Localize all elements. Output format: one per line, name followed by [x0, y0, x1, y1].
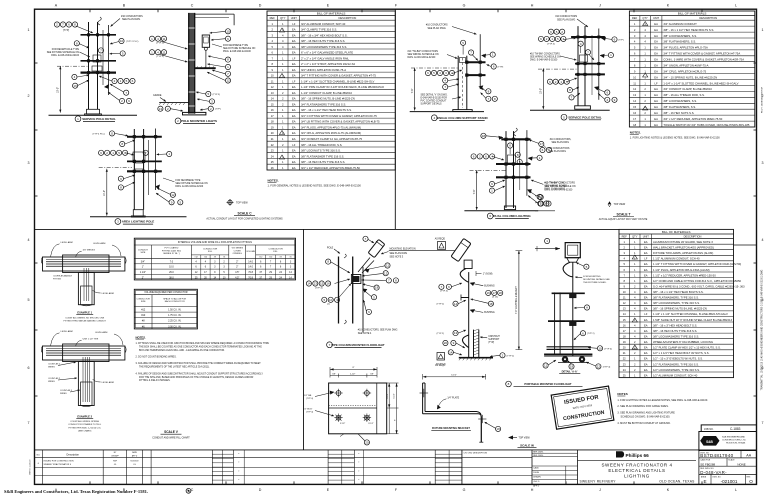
svg-text:LEVEL ARM: LEVEL ARM	[61, 241, 73, 244]
svg-text:1 1/2": 1 1/2"	[140, 271, 146, 274]
svg-text:3/8" - 16 ALL THREAD ROD, S.S.: 3/8" - 16 ALL THREAD ROD, S.S.	[663, 93, 705, 97]
svg-text:S&B: S&B	[706, 440, 713, 444]
svg-text:1: 1	[762, 28, 764, 32]
svg-text:OLD OCEAN, TEXAS: OLD OCEAN, TEXAS	[659, 479, 695, 483]
svg-text:3/8" - 16 x 1 1/2" HEX HEAD BO: 3/8" - 16 x 1 1/2" HEX HEAD BOLTS S.S.	[663, 28, 714, 32]
svg-text:1/2" MB: 1/2" MB	[304, 395, 312, 397]
svg-text:EA: EA	[644, 246, 648, 250]
example 1 caption	[64, 311, 107, 323]
svg-text:#12: #12	[141, 309, 146, 312]
svg-text:16: 16	[326, 282, 330, 286]
svg-text:ACTUAL CONDUIT LAYOUT FOR COMP: ACTUAL CONDUIT LAYOUT FOR COMPLETED LIGH…	[206, 218, 283, 221]
svg-text:11: 11	[623, 296, 626, 300]
svg-text:#10 'TW-BW' CONDUCTORS: #10 'TW-BW' CONDUCTORS	[530, 53, 560, 55]
svg-text:3/8" FLATWASHERS, TYPE 316 S.S: 3/8" FLATWASHERS, TYPE 316 S.S.	[653, 296, 699, 300]
svg-text:4.5": 4.5"	[235, 276, 239, 279]
svg-text:3/4" - 10 SPRING NUTS, B-LINE: 3/4" - 10 SPRING NUTS, B-LINE #N225-ZN	[663, 75, 717, 79]
svg-text:1 1/2" PLUG, APPLETON #PLG-150: 1 1/2" PLUG, APPLETON #PLG-150A (ALUM)	[653, 268, 710, 272]
svg-text:PLOT: 10/28/2019 BY RSF: PLOT: 10/28/2019 BY RSF	[762, 86, 764, 113]
svg-text:ACTUAL EQUIP. LAYOUT MAY VARY: ACTUAL EQUIP. LAYOUT MAY VARY ON SITE	[599, 218, 648, 221]
svg-text:*: *	[238, 471, 239, 474]
svg-text:15: 15	[271, 102, 274, 106]
svg-text:ALUMINUM FIXTURE W/ GUARD, SEE: ALUMINUM FIXTURE W/ GUARD, SEE NOTE 3	[653, 240, 713, 244]
svg-text:(TYP 4 PLC): (TYP 4 PLC)	[93, 134, 106, 136]
svg-text:11: 11	[162, 50, 165, 54]
detail 7 pole column mounted floodlight	[306, 236, 455, 335]
bill of materials table (center)	[267, 11, 395, 170]
svg-text:SIZE: SIZE	[141, 301, 146, 303]
svg-text:SUPPORT DETAILS: SUPPORT DETAILS	[421, 103, 443, 106]
svg-text:DESCRIPTION: DESCRIPTION	[339, 16, 357, 20]
svg-text:13: 13	[623, 307, 626, 311]
svg-text:#6: #6	[289, 257, 291, 259]
svg-text:3/4" PLUGS, APPLETON #PLG-75 (: 3/4" PLUGS, APPLETON #PLG-75 (ALUMINUM)	[301, 126, 361, 130]
svg-text:OPENING: OPENING	[233, 253, 243, 255]
svg-text:3/8" - 16 x 1-1/2" HEX HEAD BO: 3/8" - 16 x 1-1/2" HEX HEAD BOLTS S.S.	[301, 108, 352, 112]
svg-text:EA: EA	[654, 105, 658, 109]
svg-text:CHK APP: CHK APP	[111, 455, 120, 458]
svg-text:COVER AT A ANGLE: COVER AT A ANGLE	[53, 275, 72, 278]
svg-text:20: 20	[271, 131, 274, 135]
svg-text:11: 11	[271, 79, 274, 83]
svg-text:APP D: APP D	[533, 485, 540, 488]
svg-text:3/4" x 1/2" REDUCER, APPLETON: 3/4" x 1/2" REDUCER, APPLETON #RED-75-50	[301, 166, 360, 170]
svg-text:REF. DWG.: REF. DWG.	[533, 452, 544, 454]
svg-text:10.0: 10.0	[169, 266, 174, 269]
svg-text:EA: EA	[654, 64, 658, 68]
svg-text:(TYP): (TYP)	[488, 342, 494, 344]
svg-text:THE FIXTURE SCHED.: THE FIXTURE SCHED.	[583, 282, 607, 284]
svg-text:COUNT AS 3: COUNT AS 3	[60, 389, 73, 392]
svg-text:3/4" CONDUIT CLAMP 12 GA, APPL: 3/4" CONDUIT CLAMP 12 GA, APPLETON #H-75	[301, 137, 363, 141]
svg-text:2.25 CU. IN.: 2.25 CU. IN.	[168, 320, 181, 323]
svg-text:EA: EA	[292, 85, 296, 89]
svg-text:(TYP 2): (TYP 2)	[156, 56, 164, 58]
svg-text:EA: EA	[292, 160, 296, 164]
svg-text:EA: EA	[292, 74, 296, 78]
svg-text:25: 25	[271, 160, 274, 164]
svg-text:14: 14	[449, 350, 453, 354]
svg-text:AREA LIGHTING POLE: AREA LIGHTING POLE	[122, 220, 155, 224]
svg-text:29.0: 29.0	[169, 271, 174, 274]
revision delta triangles in center BOM table	[279, 28, 284, 159]
svg-text:GRADE: GRADE	[153, 94, 162, 97]
svg-text:11: 11	[162, 37, 165, 41]
svg-text:(2): (2)	[327, 304, 330, 306]
svg-text:(TYP): (TYP)	[498, 67, 504, 69]
svg-text:SCALE W: SCALE W	[520, 443, 534, 447]
svg-text:LEVEL ARM: LEVEL ARM	[61, 330, 73, 333]
svg-text:17: 17	[493, 291, 497, 295]
svg-text:10: 10	[226, 29, 230, 33]
svg-text:7'-6": 7'-6"	[473, 189, 476, 194]
svg-text:3/4" CLAMPS TYPE 316 S.S.: 3/4" CLAMPS TYPE 316 S.S.	[301, 28, 337, 32]
svg-text:DWG. E-048-VAR-E-02100: DWG. E-048-VAR-E-02100	[545, 188, 574, 191]
svg-text:17: 17	[633, 117, 636, 121]
svg-text:EA: EA	[644, 273, 648, 277]
svg-text:1: 1	[28, 28, 30, 32]
svg-text:WALL BRACKET, APPLETON #GS (AP: WALL BRACKET, APPLETON #GS (APPROVED)	[653, 246, 714, 250]
detail 1 title	[75, 116, 116, 122]
revision delta triangles in bottom right BOM table	[632, 255, 637, 349]
svg-text:3/8" - 16 x 1 1/2" HEX HEAD BO: 3/8" - 16 x 1 1/2" HEX HEAD BOLTS S.S.	[653, 290, 704, 294]
svg-text:REF: REF	[270, 16, 276, 20]
right margin plot stamp text	[761, 86, 764, 390]
svg-text:1. FOR LIGHTING NOTES & LEGEN: 1. FOR LIGHTING NOTES & LEGEND NOTES, SE…	[617, 399, 708, 402]
svg-text:FOR NEOPRENE TYPE: FOR NEOPRENE TYPE	[223, 45, 248, 47]
svg-text:D-048-VAR-: D-048-VAR-	[700, 470, 727, 475]
svg-text:(TYP 4): (TYP 4)	[306, 398, 313, 400]
svg-text:SCALE T: SCALE T	[616, 212, 630, 216]
top view symbol and scale E title (below detail 2)	[206, 199, 283, 221]
svg-text:TOP VIEW: TOP VIEW	[236, 201, 248, 204]
svg-text:CONDUIT AND WIRE FILL CHART: CONDUIT AND WIRE FILL CHART	[152, 437, 190, 440]
svg-text:EA: EA	[654, 28, 658, 32]
svg-text:18: 18	[482, 134, 486, 138]
svg-text:J: J	[599, 488, 601, 492]
detail 9 left caption	[506, 381, 583, 387]
svg-text:1-1/4" x 1-1/4" SLOTTED CHANNE: 1-1/4" x 1-1/4" SLOTTED CHANNEL, B-LINE …	[663, 81, 738, 85]
svg-text:EA: EA	[292, 45, 296, 49]
svg-text:E-048-VAR-E-02100 FOR: E-048-VAR-E-02100 FOR	[421, 97, 448, 100]
svg-text:E: E	[703, 479, 706, 484]
svg-text:DWG. E-048-VAR-E-02100: DWG. E-048-VAR-E-02100	[223, 50, 252, 53]
svg-text:CONDUCTOR: CONDUCTOR	[269, 248, 284, 250]
svg-text:24: 24	[623, 368, 626, 372]
svg-text:10: 10	[623, 290, 626, 294]
svg-text:7'-6": 7'-6"	[411, 88, 414, 93]
svg-text:CADD FILE: CADD FILE	[700, 459, 711, 462]
svg-text:3/4": 3/4"	[141, 260, 145, 263]
svg-text:L: L	[735, 488, 737, 492]
svg-text:18: 18	[633, 123, 636, 127]
detail 4 title	[431, 115, 488, 121]
svg-text:COUNT AS 4 WIRES. NO SPLICES.: COUNT AS 4 WIRES. NO SPLICES. ONE	[65, 316, 105, 319]
svg-text:2: 2	[28, 94, 30, 98]
svg-text:EA: EA	[644, 262, 648, 266]
svg-text:(TYP 2 PLC): (TYP 2 PLC)	[126, 41, 139, 43]
svg-text:SEE PLAN DWG: SEE PLAN DWG	[390, 252, 408, 255]
svg-text:BILL OF MATERIALS: BILL OF MATERIALS	[317, 12, 346, 16]
svg-text:D: D	[259, 488, 262, 492]
svg-text:CONDUCTOR: CONDUCTOR	[136, 299, 150, 301]
svg-text:8": 8"	[353, 367, 355, 369]
svg-text:#12: #12	[195, 257, 198, 259]
svg-text:BUSHING: BUSHING	[484, 285, 495, 287]
svg-text:#8: #8	[214, 257, 216, 259]
example 2 caption	[68, 415, 102, 433]
svg-text:FITTING (CAT. NO): FITTING (CAT. NO)	[162, 249, 181, 252]
fixture mounting bracket caption	[431, 422, 500, 432]
svg-text:(TYP 2): (TYP 2)	[437, 304, 445, 306]
svg-text:3/4" x 1/2" REDUCER, APPLETON: 3/4" x 1/2" REDUCER, APPLETON #RED-75-50	[663, 117, 722, 121]
svg-text:*: *	[358, 462, 359, 465]
svg-text:WIRES: WIRES	[60, 393, 67, 395]
svg-text:BS7D4817940: BS7D4817940	[700, 453, 733, 458]
svg-text:EA: EA	[654, 40, 658, 44]
svg-text:C: C	[191, 4, 194, 8]
svg-text:COVER: COVER	[234, 250, 242, 252]
svg-text:16: 16	[73, 84, 77, 88]
svg-text:1": 1"	[142, 266, 144, 269]
svg-text:(TYP 2): (TYP 2)	[507, 355, 515, 357]
svg-text:EA: EA	[644, 329, 648, 333]
detail 9 title	[559, 369, 580, 373]
svg-text:POLE MOUNTED LIGHTS: POLE MOUNTED LIGHTS	[181, 119, 217, 123]
svg-text:EA: EA	[292, 68, 296, 72]
svg-text:1. FOR LIGHTING NOTES & LEGEN: 1. FOR LIGHTING NOTES & LEGEND NOTES, SE…	[630, 137, 720, 140]
svg-text:SWEENY REFINERY: SWEENY REFINERY	[580, 479, 617, 483]
svg-text:3/8" - 16 SPRING NUTS B-LINE,: 3/8" - 16 SPRING NUTS B-LINE, #N225-ZN	[653, 307, 707, 311]
svg-text:LF: LF	[644, 257, 647, 261]
svg-text:14: 14	[271, 97, 274, 101]
svg-text:3/4" PLUGS, APPLETON #PLG-75A: 3/4" PLUGS, APPLETON #PLG-75A	[663, 46, 708, 50]
svg-text:16: 16	[487, 291, 491, 295]
svg-text:EA: EA	[292, 97, 296, 101]
svg-text:FOR THE SITE AND, BASED AND PR: FOR THE SITE AND, BASED AND PRINCIPLES O…	[139, 376, 254, 379]
svg-text:G: G	[463, 4, 466, 8]
svg-text:SEE WIRING SCHEDULE ON: SEE WIRING SCHEDULE ON	[545, 186, 576, 188]
svg-text:15: 15	[623, 318, 626, 322]
svg-text:EA: EA	[292, 28, 296, 32]
svg-text:3/4" LB FITTING WITH COVER & G: 3/4" LB FITTING WITH COVER & GASKET, APP…	[301, 120, 380, 124]
svg-text:1/2" LOCKWASHERS, TYPE 316 S.S: 1/2" LOCKWASHERS, TYPE 316 S.S.	[653, 368, 700, 372]
svg-text:3/4" FLATWASHERS TYPE 316 S.S.: 3/4" FLATWASHERS TYPE 316 S.S.	[301, 102, 346, 106]
svg-text:TOP VIEW: TOP VIEW	[519, 438, 531, 440]
svg-text:AS REQD: AS REQD	[435, 238, 446, 241]
svg-text:REF. DWG.: REF. DWG.	[533, 455, 544, 457]
title block chk'd approval cell	[462, 450, 532, 485]
svg-text:(TYP 2): (TYP 2)	[437, 333, 445, 335]
detail 8 pedestal floodlight with dimension	[435, 238, 523, 366]
svg-text:EA: EA	[292, 91, 296, 95]
svg-text:12: 12	[171, 193, 175, 197]
svg-text:REV 0: 11-04-19: REV 0: 11-04-19	[30, 459, 32, 475]
svg-text:7: 7	[762, 421, 764, 425]
detail 2 pole mounted lights (top middle-left)	[149, 13, 255, 115]
svg-text:EA: EA	[654, 58, 658, 62]
svg-text:DETAIL 'A-A': DETAIL 'A-A'	[562, 369, 578, 373]
svg-text:18: 18	[496, 427, 500, 431]
svg-text:-021001: -021001	[721, 479, 738, 484]
svg-text:EA: EA	[644, 290, 648, 294]
svg-text:DESCRIPTION: DESCRIPTION	[699, 16, 717, 20]
svg-text:9-1/2": 9-1/2"	[393, 393, 395, 399]
svg-text:10'-0": 10'-0"	[57, 87, 60, 93]
svg-text:3: 3	[762, 161, 764, 165]
svg-text:(TYP 4): (TYP 4)	[603, 366, 611, 368]
border row numbers right	[762, 28, 764, 425]
svg-text:S&B ENGINEERS AND: S&B ENGINEERS AND	[722, 436, 745, 439]
svg-text:1/2" BOLT: 1/2" BOLT	[303, 409, 313, 411]
svg-text:4. MUST BE BOTTOM CONDUIT AT: 4. MUST BE BOTTOM CONDUIT AT GROUND.	[617, 422, 671, 425]
svg-text:24: 24	[271, 154, 274, 158]
vertical zone divider line x=303	[303, 229, 305, 450]
svg-text:TRANSMITTAL: 10/28/2019 10:42: TRANSMITTAL: 10/28/2019 10:42 AM S+B ENG…	[761, 269, 764, 390]
svg-text:EA: EA	[644, 284, 648, 288]
svg-text:22: 22	[271, 143, 274, 147]
svg-text:EA: EA	[292, 120, 296, 124]
svg-text:NOTES.: NOTES.	[268, 179, 279, 183]
svg-text:3/4" UNION, APPLETON #UNF-75-A: 3/4" UNION, APPLETON #UNF-75-A	[301, 68, 346, 72]
svg-text:3/8" LOCKWASHERS, S.S.: 3/8" LOCKWASHERS, S.S.	[663, 99, 697, 103]
svg-text:LF: LF	[644, 312, 647, 316]
svg-text:4. FAILURE OF DESIGN AND SUB: 4. FAILURE OF DESIGN AND SUBCONTRACTOR S…	[136, 372, 264, 375]
svg-text:5/8": 5/8"	[332, 374, 336, 376]
svg-text:8": 8"	[395, 419, 397, 421]
svg-text:DWG. E-048-VAR-E-02100: DWG. E-048-VAR-E-02100	[175, 185, 204, 188]
svg-text:LF: LF	[292, 79, 295, 83]
svg-text:16: 16	[271, 108, 274, 112]
svg-text:*: *	[358, 471, 359, 474]
svg-text:3/4" T FITTING WITH COVER & GA: 3/4" T FITTING WITH COVER & GASKET, APPL…	[663, 52, 740, 56]
bill of materials table (top right)	[629, 11, 754, 127]
svg-text:19: 19	[623, 340, 626, 344]
svg-text:70.8: 70.8	[248, 276, 253, 279]
svg-text:3/8" - 16 HEX NUTS TYPE 316 S.: 3/8" - 16 HEX NUTS TYPE 316 S.S.	[653, 329, 697, 333]
svg-text:2": 2"	[236, 266, 238, 269]
svg-text:CHK D: CHK D	[533, 481, 540, 483]
svg-text:QTY: QTY	[642, 16, 648, 20]
svg-text:EA: EA	[644, 373, 648, 377]
detail 7 title	[327, 342, 385, 348]
svg-text:DSGN: DSGN	[533, 472, 539, 474]
svg-text:2. SEE PLAN DRAWING FOR CABLE: 2. SEE PLAN DRAWING FOR CABLE SIZES.	[617, 405, 668, 408]
svg-text:LF: LF	[292, 22, 295, 26]
bill of materials table (bottom right)	[619, 229, 745, 377]
svg-text:EA: EA	[644, 323, 648, 327]
svg-text:FOR RECEPTACLE TYPE: FOR RECEPTACLE TYPE	[52, 48, 80, 51]
svg-text:2-1/2": 2-1/2"	[350, 374, 356, 376]
svg-text:13: 13	[271, 91, 274, 95]
svg-text:#10 CONDUCTORS,: #10 CONDUCTORS,	[550, 139, 572, 141]
notes under center BOM table	[268, 179, 362, 188]
svg-text:MOUNTING ELEVATION: MOUNTING ELEVATION	[390, 247, 416, 250]
svg-text:11: 11	[386, 264, 389, 268]
svg-text:*: *	[238, 479, 239, 482]
svg-text:11: 11	[544, 364, 547, 368]
svg-text:SINGLE COLUMN SUPPORT STAND: SINGLE COLUMN SUPPORT STAND	[436, 116, 488, 120]
svg-text:SCALE: SCALE	[728, 459, 735, 462]
svg-text:20: 20	[365, 441, 369, 445]
svg-text:1 5/8" SLIDE NUT W/ 3" ROUND S: 1 5/8" SLIDE NUT W/ 3" ROUND STEEL CLEAT…	[653, 318, 733, 322]
svg-text:PORTABLE MOUNTED FLOODLIGHT: PORTABLE MOUNTED FLOODLIGHT	[524, 382, 571, 386]
svg-text:2": 2"	[142, 276, 144, 279]
svg-text:EA: EA	[292, 126, 296, 130]
svg-text:EA: EA	[644, 351, 648, 355]
detail 6 channel lighting stand (top, col H)	[530, 15, 624, 110]
svg-text:SERVICE POLE DETAIL: SERVICE POLE DETAIL	[82, 117, 116, 121]
svg-text:18: 18	[271, 120, 274, 124]
svg-text:BOX AND TERMINATED AGAIN WILL: BOX AND TERMINATED AGAIN WILL ADD - A EX…	[139, 349, 225, 352]
svg-text:NONE: NONE	[737, 462, 745, 466]
svg-text:1-1/2" CONDUIT CLAMP, B-LINE #: 1-1/2" CONDUIT CLAMP, B-LINE #B2010	[301, 91, 352, 95]
svg-text:SEE PLAN DWG: SEE PLAN DWG	[428, 27, 446, 30]
svg-text:FITTING PER SIZE, 2-#12/14 COL: FITTING PER SIZE, 2-#12/14 COL	[69, 427, 102, 429]
svg-text:H: H	[531, 488, 534, 492]
svg-text:SEE WIRING SCHEDULE ON: SEE WIRING SCHEDULE ON	[408, 54, 439, 56]
svg-text:3/8" LOCKWASHERS TYPE 316 S.S.: 3/8" LOCKWASHERS TYPE 316 S.S.	[301, 45, 347, 49]
svg-text:70.8: 70.8	[248, 271, 253, 274]
svg-text:10: 10	[271, 74, 274, 78]
svg-text:#10: #10	[141, 314, 146, 317]
svg-text:D: D	[259, 4, 262, 8]
svg-text:THE BOX SHALL BE COUNTED AS ON: THE BOX SHALL BE COUNTED AS ONE CONDUCTO…	[139, 346, 262, 349]
svg-text:SWEENY FRACTIONATOR 4: SWEENY FRACTIONATOR 4	[44, 463, 72, 466]
svg-text:LEVEL ARM: LEVEL ARM	[93, 242, 105, 245]
svg-text:CH. ORD DESCRIPTION: CH. ORD DESCRIPTION	[464, 453, 488, 455]
svg-text:FITTING THRU WAY AS GANGED CON: FITTING THRU WAY AS GANGED CONDUIT	[64, 320, 107, 323]
svg-text:13: 13	[159, 107, 163, 111]
svg-text:EXAMPLE 1: EXAMPLE 1	[77, 311, 92, 315]
svg-text:*: *	[358, 479, 359, 482]
svg-text:R 1/2": R 1/2"	[368, 423, 374, 425]
horizontal zone divider line	[35, 228, 620, 230]
svg-text:VOLUME: VOLUME	[246, 251, 255, 253]
svg-text:FIXTURE TWO-ARMS, APPLETON #GS: FIXTURE TWO-ARMS, APPLETON #GS (ALUM)	[653, 251, 713, 255]
svg-text:Description: Description	[67, 453, 80, 456]
svg-text:LIGHTING: LIGHTING	[624, 473, 650, 478]
svg-text:10: 10	[598, 346, 602, 350]
svg-text:DWG. E-048-VAR-E-02100: DWG. E-048-VAR-E-02100	[51, 54, 80, 57]
svg-text:COUNT AS 2: COUNT AS 2	[48, 377, 61, 380]
svg-text:WHEELS/CASTERS 6" DIA RUBBER,: WHEELS/CASTERS 6" DIA RUBBER, LOCKING	[653, 340, 713, 344]
svg-text:LF: LF	[292, 56, 295, 60]
svg-text:1 1/2" T FITTING WITH COVER &: 1 1/2" T FITTING WITH COVER & GASKET, AP…	[653, 262, 741, 266]
svg-text:*: *	[358, 453, 359, 456]
svg-text:3/4" ALUMINUM CONDUIT, SCH 40: 3/4" ALUMINUM CONDUIT, SCH 40	[301, 22, 346, 26]
svg-text:EXAMPLE 2: EXAMPLE 2	[77, 415, 92, 419]
Phillips 66 logo	[578, 451, 697, 461]
svg-text:CONN., 3 WIRE WITH COVER & GAS: CONN., 3 WIRE WITH COVER & GASKET, APPLE…	[663, 58, 744, 62]
svg-text:CONDUCTOR: CONDUCTOR	[203, 248, 218, 250]
detail 6 title	[561, 114, 602, 120]
svg-text:EA: EA	[644, 240, 648, 244]
svg-text:6: 6	[28, 366, 30, 370]
svg-text:*: *	[238, 453, 239, 456]
svg-text:CADD: CADD	[533, 467, 539, 470]
right margin tick line	[734, 244, 757, 246]
svg-text:5: 5	[28, 298, 30, 302]
svg-text:26: 26	[271, 166, 274, 170]
svg-text:3/8" LOCKWASHERS TYPE 316 S.S.: 3/8" LOCKWASHERS TYPE 316 S.S.	[653, 335, 699, 339]
svg-text:#12: #12	[259, 257, 262, 259]
svg-text:18: 18	[623, 335, 626, 339]
svg-text:14.0: 14.0	[248, 260, 253, 263]
svg-text:EA: EA	[292, 62, 296, 66]
issued for construction stamp	[551, 386, 614, 429]
svg-text:1" (NOM): 1" (NOM)	[483, 273, 493, 275]
svg-text:#6: #6	[223, 257, 225, 259]
svg-text:FOR NEOPRENE TYPE: FOR NEOPRENE TYPE	[175, 180, 200, 182]
svg-text:3/8" - 16 HEX NUTS TYPE 316 S.: 3/8" - 16 HEX NUTS TYPE 316 S.S.	[301, 39, 345, 43]
svg-text:(TYP 4): (TYP 4)	[547, 43, 555, 45]
svg-text:16: 16	[623, 323, 626, 327]
svg-text:EA: EA	[644, 307, 648, 311]
svg-text:4: 4	[28, 238, 30, 242]
svg-text:G: G	[463, 488, 466, 492]
svg-text:SEE NOTE 3: SEE NOTE 3	[390, 256, 404, 258]
svg-text:SIZE: SIZE	[140, 252, 145, 254]
svg-text:WIRES: WIRES	[48, 367, 55, 369]
svg-text:12: 12	[597, 365, 601, 369]
svg-text:TOGGLE SWITCH W/ 3/4" HUBS COV: TOGGLE SWITCH W/ 3/4" HUBS COVER, CROUSE…	[663, 123, 750, 127]
svg-text:EA: EA	[292, 149, 296, 153]
svg-text:LEVEL ARM: LEVEL ARM	[102, 292, 114, 295]
svg-text:23: 23	[271, 149, 274, 153]
svg-text:FITTING: FITTING	[53, 279, 61, 281]
svg-text:NO.: NO.	[37, 454, 41, 456]
